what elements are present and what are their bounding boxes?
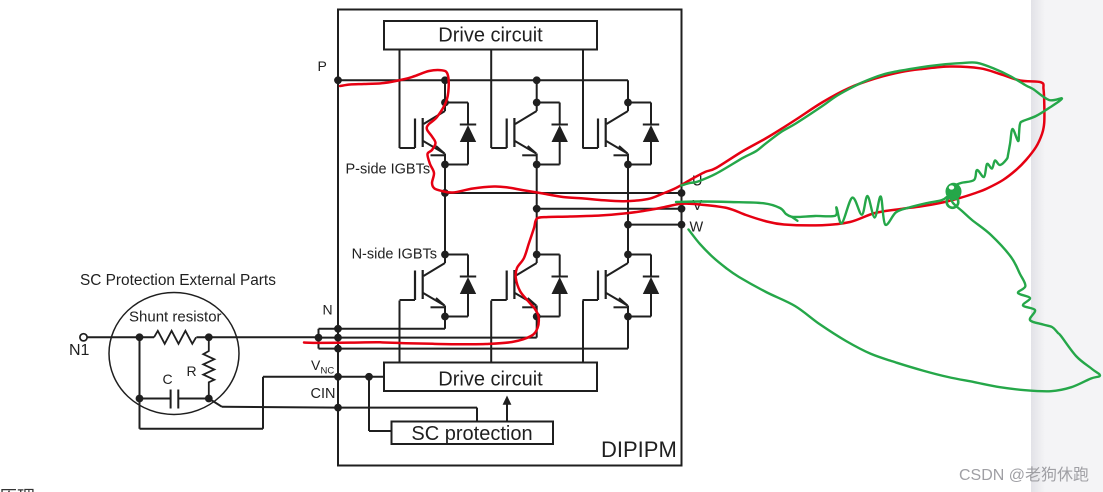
node P bus junction 2 bbox=[533, 76, 541, 84]
svg-text:Drive circuit: Drive circuit bbox=[438, 25, 543, 47]
red annotation scribble bbox=[304, 66, 1044, 344]
wire gate drive W (N-side) bbox=[582, 301, 584, 363]
diode D1 (freewheel of Q1) bbox=[445, 103, 476, 165]
node W at box edge bbox=[624, 221, 685, 229]
wire gate drive V (P-side) bbox=[490, 50, 492, 149]
terminal N bbox=[323, 302, 342, 342]
wire N tie bar bbox=[318, 329, 320, 349]
wire phase U bbox=[445, 165, 682, 255]
resistor R bbox=[187, 337, 215, 398]
node V at box edge bbox=[533, 205, 686, 213]
wire gate drive U (P-side) bbox=[399, 50, 401, 149]
wire collector drop U bbox=[444, 80, 446, 102]
diode D3 (freewheel of Q3) bbox=[628, 103, 659, 165]
node N tie junction bbox=[315, 334, 323, 342]
node VNC branch bbox=[365, 373, 373, 381]
node R bottom bbox=[205, 395, 213, 403]
svg-text:SC protection: SC protection bbox=[411, 423, 532, 445]
arrow SC protection to drive circuit bbox=[503, 396, 512, 422]
wire P bus bbox=[338, 80, 628, 102]
node P bus junction 1 bbox=[441, 76, 449, 84]
svg-text:V: V bbox=[311, 357, 321, 373]
svg-text:CIN: CIN bbox=[311, 386, 336, 402]
wire C left leg bbox=[139, 337, 141, 398]
wire shunt to N bbox=[196, 336, 318, 338]
wire VNC branch to SC protection bbox=[369, 377, 392, 431]
terminal CIN bbox=[311, 386, 342, 412]
wire R bottom to CIN bbox=[209, 399, 338, 408]
wire phase W bbox=[628, 165, 682, 255]
wire emitter return U bbox=[319, 317, 446, 329]
node shunt right bbox=[205, 333, 213, 341]
diode D2 (freewheel of Q2) bbox=[537, 103, 568, 165]
wire phase V bbox=[537, 165, 682, 255]
terminal N1 bbox=[69, 334, 90, 359]
svg-text:DIPIPM: DIPIPM bbox=[601, 437, 677, 462]
svg-text:SC Protection External Parts: SC Protection External Parts bbox=[80, 272, 276, 289]
svg-text:N1: N1 bbox=[69, 342, 90, 359]
wire emitter return W bbox=[319, 317, 629, 349]
drive circuit box (top) bbox=[384, 21, 597, 50]
svg-text:原理: 原理 bbox=[0, 488, 35, 492]
node U at box edge bbox=[441, 189, 685, 197]
diode D5 (freewheel of Q5) bbox=[537, 255, 568, 317]
diode D4 (freewheel of Q4) bbox=[445, 255, 476, 317]
resistor shunt bbox=[154, 331, 196, 344]
green scribble knot bbox=[946, 183, 962, 208]
wire CIN to SC protection bbox=[338, 408, 477, 422]
wire gate drive U (N-side) bbox=[399, 301, 401, 363]
wire VNC to drive circuit bbox=[338, 376, 384, 378]
svg-text:P-side IGBTs: P-side IGBTs bbox=[346, 162, 431, 178]
green annotation scribble (upper loop) bbox=[681, 62, 1062, 187]
wire N1 to shunt bbox=[87, 336, 154, 338]
svg-text:C: C bbox=[163, 371, 173, 387]
DIPIPM module outline box bbox=[338, 10, 682, 466]
terminal VNC bbox=[311, 357, 342, 381]
node shunt left bbox=[136, 333, 144, 341]
transistor Q6 bbox=[583, 251, 632, 321]
svg-text:Shunt resistor: Shunt resistor bbox=[129, 309, 222, 326]
svg-text:NC: NC bbox=[321, 366, 335, 377]
green annotation scribble (wavy line) bbox=[676, 196, 948, 225]
wire emitter return V bbox=[319, 317, 537, 338]
transistor Q5 bbox=[491, 251, 540, 321]
diode D6 (freewheel of Q6) bbox=[628, 255, 659, 317]
capacitor C bbox=[140, 371, 209, 409]
terminal P bbox=[318, 58, 342, 84]
wire gate drive V (N-side) bbox=[490, 301, 492, 363]
transistor Q4 bbox=[400, 251, 449, 321]
drive circuit box (bottom) bbox=[384, 363, 597, 392]
svg-text:R: R bbox=[187, 363, 197, 379]
green scribble barb bbox=[791, 217, 797, 221]
svg-text:N-side IGBTs: N-side IGBTs bbox=[352, 247, 437, 263]
SC protection box bbox=[392, 422, 554, 445]
svg-text:P: P bbox=[318, 58, 327, 74]
svg-text:N: N bbox=[323, 302, 333, 318]
green annotation scribble (lower loop) bbox=[689, 196, 1101, 391]
transistor Q2 bbox=[491, 99, 540, 169]
external parts ellipse bbox=[109, 293, 239, 415]
svg-text:CSDN @老狗休跑: CSDN @老狗休跑 bbox=[959, 466, 1089, 484]
transistor Q3 bbox=[583, 99, 632, 169]
node return W at box edge bbox=[334, 345, 342, 353]
node return U at box edge bbox=[334, 325, 342, 333]
wire collector drop V bbox=[536, 80, 538, 102]
transistor Q1 bbox=[400, 99, 449, 169]
svg-text:Drive circuit: Drive circuit bbox=[438, 369, 543, 391]
wire gate drive W (P-side) bbox=[582, 50, 584, 149]
wire VNC external loop bbox=[140, 377, 339, 429]
node C left bbox=[136, 395, 144, 403]
